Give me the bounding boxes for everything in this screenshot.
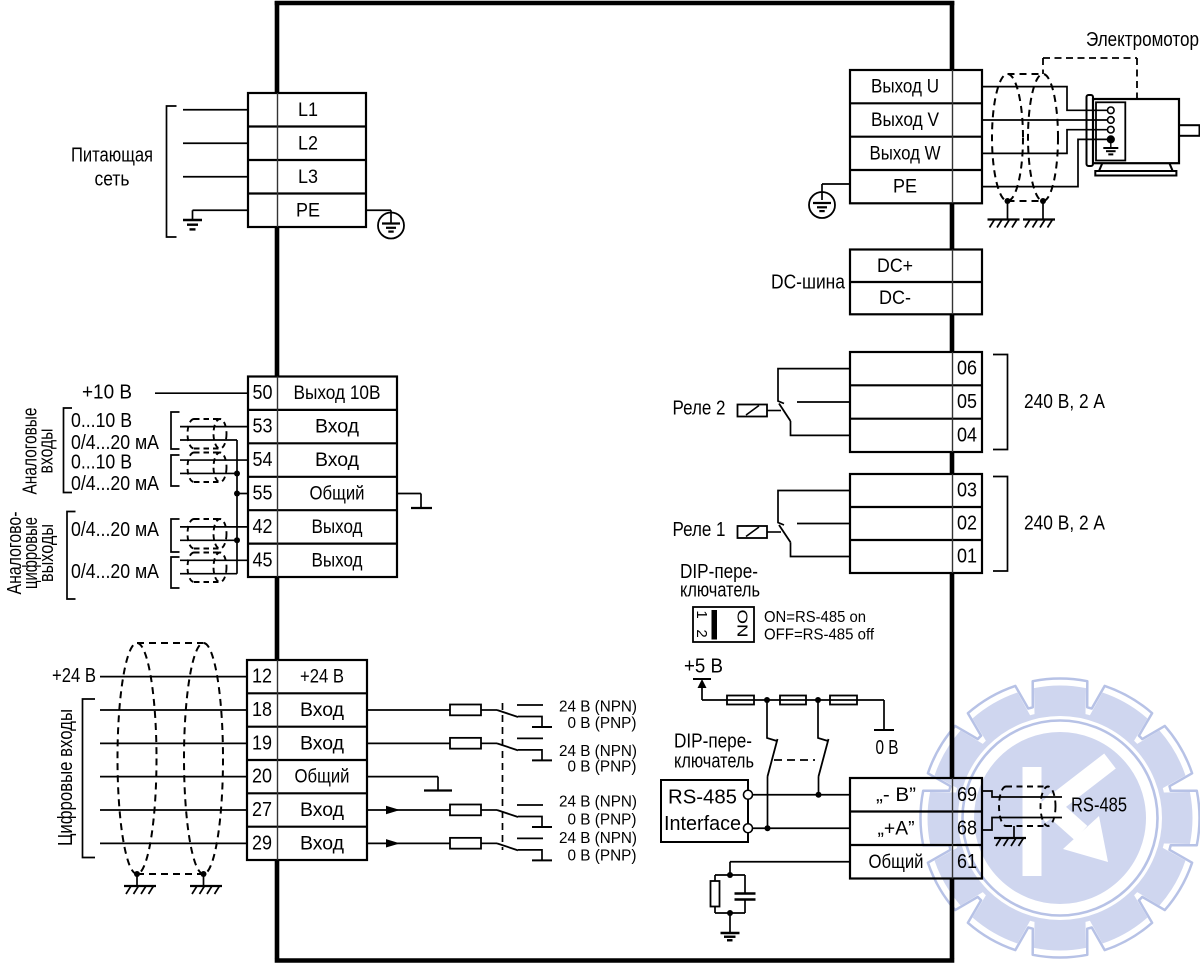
svg-text:24 В (NPN): 24 В (NPN) (559, 794, 637, 811)
wire input 19 to switch (367, 742, 450, 744)
svg-text:„- B”: „- B” (876, 784, 916, 806)
wire output V (982, 119, 1108, 121)
chassis ground (digital shield 2) (190, 885, 222, 887)
svg-text:ключатель: ключатель (680, 580, 760, 602)
svg-text:Общий: Общий (869, 851, 924, 873)
svg-text:DC-шина: DC-шина (771, 272, 846, 294)
svg-text:18: 18 (252, 699, 272, 721)
svg-text:05: 05 (957, 391, 977, 413)
contact 24V NPN (input 29) (517, 837, 543, 839)
ganged switch link (dashed) (502, 703, 504, 850)
svg-text:ON: ON (734, 610, 751, 638)
wire resistor 19 to contact (481, 742, 497, 744)
svg-text:45: 45 (253, 549, 273, 571)
svg-text:04: 04 (957, 424, 977, 446)
resistor (input 29) (450, 838, 481, 849)
ground (termination) (721, 932, 740, 934)
svg-text:0 В (PNP): 0 В (PNP) (568, 715, 637, 732)
svg-text:PE: PE (893, 176, 917, 198)
wire L3 (183, 176, 248, 178)
bracket input 53 pair (171, 412, 180, 449)
wire +A (753, 827, 851, 829)
shielded cable (input 54) (194, 452, 220, 454)
terminal block: DC bus DC+ DC- (850, 250, 982, 315)
svg-text:Выход W: Выход W (870, 142, 942, 164)
shielded cable (input 45) (194, 552, 220, 554)
wire analog 42 signal (180, 526, 248, 528)
pin circle +A (744, 824, 753, 833)
wire digital terminal 18 (100, 709, 247, 711)
svg-text:24 В (NPN): 24 В (NPN) (559, 699, 637, 716)
junction +A pull-up (765, 825, 771, 831)
svg-text:03: 03 (957, 480, 977, 502)
svg-text:RS-485: RS-485 (668, 787, 737, 809)
junction R1-R2 (764, 697, 770, 703)
signal ground (analog common) (411, 507, 432, 509)
svg-text:Interface: Interface (664, 813, 741, 835)
wire termination top rail (715, 874, 745, 876)
protective earth symbol (circle) right (809, 192, 835, 218)
svg-text:02: 02 (957, 513, 977, 535)
chassis ground (motor shield 1) (988, 218, 1020, 220)
junction node (wire to 55) (234, 491, 240, 497)
svg-text:50: 50 (253, 382, 273, 404)
resistor R1 (pull-up B) (727, 696, 754, 705)
contact 0V PNP (input 29) (518, 850, 542, 861)
wire resistor 29 to contact (481, 842, 497, 844)
wire L2 (183, 142, 248, 144)
switch arm (input 27) (497, 810, 518, 817)
shielded cable (input 42) (194, 518, 220, 520)
DIP gang link (dashed) (774, 759, 815, 761)
motor shield bottom link (1008, 200, 1044, 202)
wire digital terminal 19 (100, 742, 247, 744)
svg-text:DC+: DC+ (877, 255, 913, 277)
signal ground (digital common) (424, 789, 452, 791)
junction termination bottom (727, 910, 733, 916)
wire PE to ground (193, 209, 249, 211)
wire analog 45 return (180, 573, 237, 575)
wire output W (982, 130, 1108, 154)
contact 24V NPN (input 27) (517, 804, 543, 806)
bracket relay 2 rating (993, 355, 1008, 450)
shielded cable ellipse 1 (digital) (118, 643, 157, 874)
bracket relay 1 rating (993, 477, 1008, 572)
junction node (54 return) (234, 470, 240, 476)
svg-text:06: 06 (957, 358, 977, 380)
svg-text:Цифровые входы: Цифровые входы (55, 709, 77, 846)
svg-text:0 В (PNP): 0 В (PNP) (568, 759, 637, 776)
svg-text:240 В, 2 А: 240 В, 2 А (1024, 513, 1106, 535)
svg-text:Вход: Вход (315, 416, 360, 438)
svg-text:Электромотор: Электромотор (1086, 29, 1199, 51)
svg-text:RS-485: RS-485 (1071, 795, 1127, 817)
pin circle -B (744, 790, 753, 799)
capacitor C1 (termination) (744, 875, 746, 894)
svg-text:01: 01 (957, 546, 977, 568)
wire input 18 to switch (367, 709, 450, 711)
junction shield 1 drain (134, 871, 140, 877)
protective earth symbol (circle) left (378, 213, 404, 239)
contact 0V PNP (input 19) (518, 750, 542, 761)
svg-text:OFF=RS-485 off: OFF=RS-485 off (764, 627, 875, 644)
wire input 27 to switch (367, 809, 450, 811)
shield top link (137, 642, 204, 644)
wire to 0V (883, 700, 885, 730)
svg-text:+10 В: +10 В (82, 382, 132, 404)
wire termination bottom rail (715, 912, 745, 914)
svg-text:+24 В: +24 В (52, 665, 96, 687)
svg-text:+5 В: +5 В (684, 656, 723, 678)
svg-text:L3: L3 (298, 166, 318, 188)
wire output PE (982, 139, 1108, 186)
svg-text:сеть: сеть (95, 169, 130, 191)
terminal block: mains input L1 L2 L3 PE (248, 93, 366, 227)
svg-text:„+А”: „+А” (878, 817, 915, 839)
wire analog 53 signal (180, 426, 248, 428)
wire 69 stub (982, 791, 1062, 797)
svg-text:55: 55 (253, 483, 273, 505)
terminal block: relay 2 contacts 06 05 04 (850, 352, 982, 452)
svg-text:24 В (NPN): 24 В (NPN) (559, 830, 637, 847)
resistor R2 (pull-up A) (780, 696, 806, 705)
bracket mains group (167, 106, 177, 237)
shielded cable ellipse 2 (digital) (184, 643, 223, 874)
terminal block: RS-485 terminals 69 68 61 (850, 778, 982, 879)
svg-text:24 В (NPN): 24 В (NPN) (559, 743, 637, 760)
svg-text:0...10 В: 0...10 В (71, 452, 132, 474)
contact 24V NPN (input 19) (517, 737, 543, 739)
DIP switch S1 (RS-485 on/off) (693, 607, 754, 642)
svg-text:2: 2 (693, 629, 710, 637)
motor shield top link (1008, 73, 1044, 75)
wire 20 common to ground (367, 776, 438, 778)
svg-text:PE: PE (296, 199, 320, 221)
dashed link converter to motor frame (1043, 57, 1137, 59)
svg-text:L1: L1 (298, 99, 318, 121)
svg-text:DC-: DC- (879, 287, 911, 309)
junction -B pull-up (816, 792, 822, 798)
chassis ground (digital shield 1) (124, 885, 156, 887)
svg-text:L2: L2 (298, 132, 318, 154)
svg-text:12: 12 (252, 666, 272, 688)
junction node (42 return) (234, 537, 240, 543)
wire +5V rail (702, 699, 884, 701)
shield bottom link (137, 873, 204, 875)
wire +10V to 50 (155, 392, 248, 394)
RS-485 cable shield (999, 787, 1055, 827)
chassis ground (motor shield 2) (1023, 218, 1055, 220)
svg-text:Реле 2: Реле 2 (673, 398, 726, 420)
motor cable shield ellipse 2 (1028, 74, 1058, 201)
wire analog 42 return (180, 539, 237, 541)
svg-text:входы: входы (36, 429, 58, 474)
wire resistor 18 to contact (481, 709, 497, 711)
device enclosure border (frequency converter) (275, 1, 955, 961)
resistor (input 27) (450, 805, 481, 816)
svg-text:53: 53 (253, 416, 273, 438)
svg-text:+24 В: +24 В (300, 666, 344, 688)
svg-text:Вход: Вход (300, 732, 345, 754)
wire 68 stub (982, 818, 1062, 831)
common return bus wire (236, 440, 238, 574)
svg-text:Общий: Общий (295, 766, 350, 788)
bracket analog outputs (67, 512, 76, 600)
svg-text:0 В (PNP): 0 В (PNP) (568, 848, 637, 865)
resistor R4 (termination) (714, 875, 716, 881)
svg-text:Выход U: Выход U (871, 76, 939, 98)
wire digital terminal 20 (100, 776, 247, 778)
junction motor shield 1 (1005, 198, 1011, 204)
bracket analog inputs (64, 408, 73, 493)
wire common to 55 (237, 493, 248, 495)
wire analog 54 signal (180, 459, 248, 461)
svg-text:выходы: выходы (36, 524, 58, 582)
svg-text:DIP-пере-: DIP-пере- (674, 731, 752, 753)
resistor (input 19) (450, 738, 481, 749)
svg-text:0/4...20 мА: 0/4...20 мА (71, 473, 160, 495)
switch arm (input 18) (497, 710, 518, 717)
svg-text:Питающая: Питающая (71, 145, 153, 167)
svg-text:Реле 1: Реле 1 (673, 519, 726, 541)
svg-text:19: 19 (252, 732, 272, 754)
wire input 29 to switch (367, 842, 450, 844)
svg-text:Вход: Вход (300, 832, 345, 854)
svg-text:20: 20 (252, 766, 272, 788)
wire resistor 27 to contact (481, 809, 497, 811)
junction shield 2 drain (201, 871, 207, 877)
wire output U (982, 87, 1108, 111)
svg-text:ключатель: ключатель (674, 751, 754, 773)
svg-text:1: 1 (693, 610, 710, 618)
wire digital terminal 29 (100, 842, 247, 844)
svg-text:Выход V: Выход V (871, 109, 939, 131)
terminal block: motor output U V W PE (850, 70, 982, 203)
wire -B (753, 794, 851, 796)
bracket digital inputs (83, 699, 96, 858)
svg-text:Выход: Выход (312, 516, 364, 538)
svg-text:69: 69 (957, 784, 977, 806)
wire PE to earth circle right (822, 183, 850, 185)
wire digital terminal 12 (100, 676, 247, 678)
terminal block: relay 1 contacts 03 02 01 (850, 474, 982, 573)
svg-text:54: 54 (253, 449, 273, 471)
wire L1 (183, 109, 248, 111)
svg-text:29: 29 (252, 832, 272, 854)
wire shield to ground (1013, 826, 1015, 838)
svg-text:0 В (PNP): 0 В (PNP) (568, 812, 637, 829)
switch arm (input 29) (497, 843, 518, 850)
svg-text:42: 42 (253, 516, 273, 538)
wire 61 common (730, 861, 850, 863)
svg-text:61: 61 (957, 851, 977, 873)
resistor R3 (pull-down) (830, 696, 857, 705)
wire PE to earth circle (366, 209, 391, 211)
wire analog 45 signal (180, 559, 248, 561)
bracket output 45 pair (171, 557, 180, 588)
chassis ground (RS-485 shield) (994, 837, 1026, 839)
svg-text:0/4...20 мА: 0/4...20 мА (71, 561, 160, 583)
DIP switch contact B (right) (818, 700, 828, 741)
svg-text:Выход: Выход (312, 549, 364, 571)
0V rail symbol (874, 729, 894, 731)
wire 55 to internal common (397, 493, 421, 495)
ground (mains PE) (183, 219, 202, 221)
wire analog 54 return (180, 472, 237, 474)
svg-text:Вход: Вход (300, 799, 345, 821)
bracket output 42 pair (171, 519, 180, 552)
svg-text:0...10 В: 0...10 В (71, 410, 132, 432)
wire digital terminal 27 (100, 809, 247, 811)
terminal block: analog I/O 50 53 54 55 42 45 (248, 377, 397, 578)
svg-text:Вход: Вход (315, 449, 360, 471)
shielded cable (input 53) (194, 418, 220, 420)
contact 24V NPN (input 18) (517, 704, 543, 706)
junction R2-R3 (815, 697, 821, 703)
svg-text:Выход 10В: Выход 10В (294, 382, 381, 404)
bracket input 54 pair (171, 455, 180, 486)
svg-text:240 В, 2 А: 240 В, 2 А (1024, 391, 1106, 413)
resistor (input 18) (450, 705, 481, 716)
svg-text:68: 68 (957, 817, 977, 839)
wire to signal ground (729, 913, 731, 933)
junction termination top (727, 872, 733, 878)
contact 0V PNP (input 18) (518, 717, 542, 728)
electric motor M1 (1087, 95, 1200, 176)
svg-text:Вход: Вход (300, 699, 345, 721)
contact 0V PNP (input 27) (518, 817, 542, 828)
junction motor shield 2 (1040, 198, 1046, 204)
watermark logo (gear with K arrow) (921, 679, 1200, 958)
svg-text:27: 27 (252, 799, 272, 821)
motor cable shield ellipse 1 (992, 74, 1023, 201)
svg-text:0/4...20 мА: 0/4...20 мА (71, 519, 160, 541)
terminal block: digital inputs 12 18 19 20 27 29 (247, 660, 367, 860)
svg-text:0 В: 0 В (876, 737, 899, 759)
block RS-485 Interface U2 (661, 780, 748, 842)
svg-text:ON=RS-485 on: ON=RS-485 on (764, 609, 866, 626)
switch arm (input 19) (497, 743, 518, 750)
+5V supply symbol (693, 678, 711, 680)
DIP switch contact A (left) (767, 700, 777, 741)
svg-text:Общий: Общий (310, 483, 365, 505)
wire analog 53 return (180, 439, 237, 441)
